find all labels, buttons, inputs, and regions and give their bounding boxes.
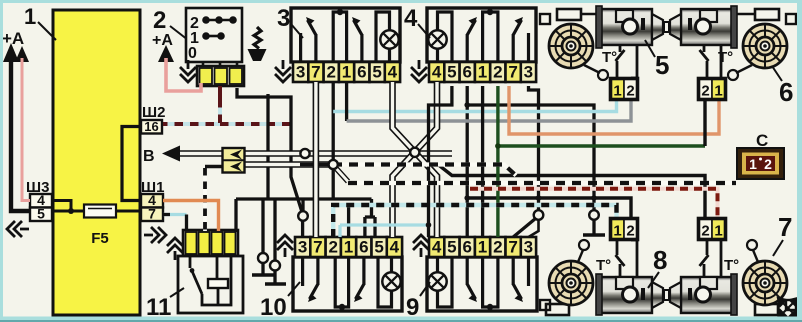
svg-text:2: 2 [493,238,502,257]
svg-text:2: 2 [626,223,634,240]
svg-text:5: 5 [447,238,456,257]
svg-text:3: 3 [298,238,307,257]
svg-text:1: 1 [478,63,487,82]
svg-text:16: 16 [144,119,158,134]
svg-text:T°: T° [718,49,733,66]
svg-text:2: 2 [701,83,709,100]
svg-text:5: 5 [447,63,456,82]
svg-text:7: 7 [313,238,322,257]
svg-text:4: 4 [388,63,398,82]
svg-text:7: 7 [778,212,792,242]
svg-text:1: 1 [749,156,757,172]
svg-text:3: 3 [296,63,305,82]
svg-text:2: 2 [764,156,772,172]
svg-text:T°: T° [602,49,617,66]
svg-text:1: 1 [478,238,487,257]
svg-text:7: 7 [508,238,517,257]
svg-text:0: 0 [188,45,197,62]
svg-text:1: 1 [613,223,621,240]
svg-text:4: 4 [390,238,400,257]
svg-text:В: В [143,148,155,165]
svg-text:6: 6 [462,63,471,82]
svg-text:1: 1 [714,83,722,100]
svg-text:3: 3 [277,5,290,32]
svg-text:4: 4 [432,238,442,257]
svg-text:5: 5 [374,238,383,257]
svg-text:3: 3 [524,63,533,82]
svg-text:2: 2 [493,63,502,82]
svg-text:1: 1 [344,238,353,257]
svg-text:2: 2 [626,83,634,100]
svg-text:T°: T° [596,257,611,274]
svg-text:2: 2 [153,7,166,34]
svg-text:1: 1 [342,63,351,82]
svg-text:7: 7 [148,206,156,222]
svg-text:1: 1 [24,4,36,29]
svg-text:2: 2 [326,63,335,82]
svg-text:2: 2 [328,238,337,257]
svg-text:5: 5 [372,63,381,82]
svg-text:4: 4 [404,5,418,32]
svg-text:1: 1 [613,83,621,100]
svg-text:5: 5 [37,206,45,222]
svg-text:6: 6 [462,238,471,257]
svg-text:8: 8 [653,245,667,275]
svg-text:+A: +A [152,32,173,49]
svg-text:7: 7 [311,63,320,82]
svg-text:3: 3 [524,238,533,257]
svg-text:4: 4 [432,63,442,82]
svg-text:+A: +A [2,29,24,48]
svg-text:F5: F5 [91,230,109,247]
svg-text:1: 1 [714,223,722,240]
svg-text:6: 6 [359,238,368,257]
svg-text:T°: T° [724,257,739,274]
svg-text:5: 5 [655,50,669,80]
svg-text:7: 7 [508,63,517,82]
svg-text:2: 2 [701,223,709,240]
svg-text:6: 6 [357,63,366,82]
